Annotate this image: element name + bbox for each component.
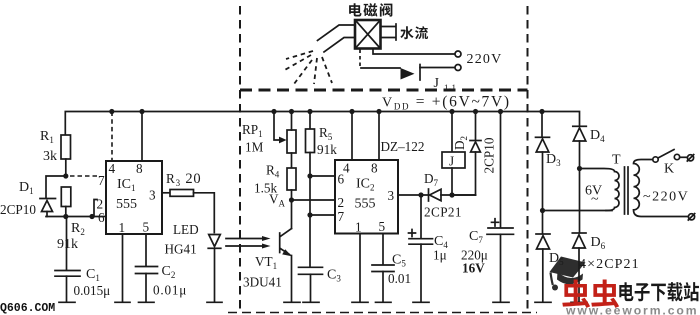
svg-text:91k: 91k <box>57 237 78 252</box>
svg-text:1-1: 1-1 <box>444 83 456 93</box>
wire rail to IC2 pin 4 <box>351 112 353 161</box>
op IC1 555 timer box <box>106 161 162 234</box>
svg-text:1: 1 <box>355 220 362 235</box>
svg-text:www.eeworm.com: www.eeworm.com <box>565 304 698 315</box>
ground C1 <box>59 301 75 303</box>
wire node to pin 7 <box>310 214 335 216</box>
svg-text:J: J <box>434 76 440 91</box>
node VA <box>289 197 294 202</box>
diode D6 <box>572 232 586 234</box>
watermark 电子下载站 <box>619 282 633 301</box>
terminal mains top <box>687 155 693 161</box>
svg-text:0.01: 0.01 <box>388 271 411 286</box>
svg-text:2CP21: 2CP21 <box>424 205 462 220</box>
svg-text:4: 4 <box>109 161 116 176</box>
resistor R5 <box>309 112 311 130</box>
capacitor C1 <box>66 217 68 271</box>
svg-text:J: J <box>449 154 454 169</box>
svg-text:3DU41: 3DU41 <box>243 275 282 290</box>
wire winding bottom <box>543 210 613 212</box>
node R1/R2/D1/pin7 <box>63 173 68 178</box>
transformer T primary 6V winding <box>580 169 620 211</box>
wire pin 3 to R3 <box>162 192 170 194</box>
wire D1/R2 to pins 2,6 <box>46 216 106 218</box>
svg-text:7: 7 <box>98 173 105 188</box>
svg-text:3: 3 <box>149 188 156 203</box>
diode D1 <box>40 198 56 200</box>
wire winding top down to D6 (crossover) <box>579 169 581 233</box>
svg-text:3k: 3k <box>43 149 57 164</box>
svg-text:0.015μ: 0.015μ <box>74 283 111 298</box>
transformer secondary winding <box>634 160 689 217</box>
svg-text:1: 1 <box>119 220 126 235</box>
switch K <box>653 157 658 162</box>
diode D5 <box>542 211 544 234</box>
svg-text:5: 5 <box>143 220 150 235</box>
svg-text:Q606.COM: Q606.COM <box>0 302 55 315</box>
dashed wire node to pin 7 <box>70 175 97 177</box>
capacitor C4 <box>420 195 422 238</box>
ground C3 <box>303 301 319 303</box>
LED HG41 <box>209 235 221 247</box>
svg-text:~220V: ~220V <box>643 190 689 205</box>
capacitor C2 <box>145 234 147 266</box>
svg-text:DZ–122: DZ–122 <box>381 139 425 154</box>
water spray dashes <box>283 51 332 84</box>
rail junction nodes <box>109 109 114 114</box>
svg-text:~: ~ <box>591 192 599 207</box>
diode D7 2CP21 <box>428 189 430 201</box>
terminal lower 220V <box>455 65 461 71</box>
node relay bottom <box>449 192 454 197</box>
svg-text:2CP10: 2CP10 <box>0 202 36 217</box>
wire node to pin 6 <box>310 175 335 177</box>
node pin7/C3 <box>307 212 312 217</box>
wire VA to IC2 pin 2 <box>292 199 336 201</box>
node winding bottom <box>540 208 545 213</box>
dashed wire rail to pin 4 <box>111 112 113 162</box>
wire rail to IC2 pin 8 <box>378 112 380 161</box>
phototransistor VT1 <box>291 200 293 229</box>
resistor R1 <box>61 135 71 159</box>
ground VT1 <box>284 301 300 303</box>
relay coil J <box>451 112 453 153</box>
svg-text:2CP10: 2CP10 <box>482 137 497 173</box>
wire rail to pin 8 <box>141 112 143 162</box>
wire R1 to node <box>65 159 67 176</box>
relay contact J1-1 wire <box>361 67 400 69</box>
svg-text:16V: 16V <box>462 261 485 276</box>
svg-text:K: K <box>664 162 674 177</box>
ground pin1 IC1 <box>115 301 130 303</box>
wire valve to upper 220V terminal <box>373 49 455 54</box>
node winding top <box>577 166 582 171</box>
ground IC2 pin1 <box>352 301 368 303</box>
label 电磁阀 (solenoid valve) <box>349 3 361 16</box>
wire contact to lower 220V terminal <box>420 67 455 69</box>
svg-text:91k: 91k <box>317 142 337 157</box>
svg-text:6: 6 <box>98 210 105 225</box>
label 水流 (water flow) <box>400 26 413 39</box>
relay contact J1-1 fixed bar <box>419 65 421 81</box>
solenoid valve body <box>355 20 381 49</box>
resistor R2 <box>61 187 71 207</box>
capacitor C3 <box>299 266 323 268</box>
wire node to C3 <box>309 215 311 267</box>
terminal upper 220V <box>455 51 461 57</box>
ground C7 <box>493 301 509 303</box>
svg-text:555: 555 <box>355 197 376 212</box>
capacitor C5 <box>382 234 384 265</box>
resistor R3 <box>170 190 194 197</box>
svg-text:1M: 1M <box>245 140 264 155</box>
svg-text:6: 6 <box>338 172 345 187</box>
outlet spout pipe <box>318 25 355 41</box>
svg-text:HG41: HG41 <box>165 242 197 257</box>
svg-text:555: 555 <box>116 197 137 212</box>
transformer core <box>625 167 629 214</box>
potentiometer RP1 wiper arm <box>274 112 279 141</box>
svg-text:1μ: 1μ <box>433 248 447 263</box>
svg-text:2: 2 <box>338 195 345 210</box>
wire pin 3 output <box>398 194 429 196</box>
dashed region separator right vertical <box>527 6 529 310</box>
diode D2 flyback <box>475 112 477 141</box>
ground LED <box>207 301 222 303</box>
diode D3 <box>541 112 543 138</box>
ground D6 <box>571 301 587 303</box>
svg-text:LED: LED <box>173 222 199 237</box>
wire R3 to LED <box>194 193 215 233</box>
ground C5 <box>376 301 392 303</box>
wire IC2 pin 1 to ground <box>359 234 361 302</box>
wire node down <box>309 176 311 215</box>
dashed valve-box bottom edge <box>240 89 528 92</box>
svg-text:3: 3 <box>388 188 395 203</box>
node pin3/C4 <box>418 192 423 197</box>
light coupling arrows LED to VT1 <box>226 238 262 240</box>
wire relay node to D2 <box>452 194 476 196</box>
svg-text:8: 8 <box>136 161 143 176</box>
dashed region separator left vertical <box>239 6 241 310</box>
diode D4 <box>573 125 587 127</box>
svg-text:0.01μ: 0.01μ <box>153 283 187 298</box>
water inlet pipe <box>381 27 396 38</box>
watermark graduation cap logo <box>550 257 586 278</box>
watermark 虫虫 red characters <box>562 280 590 308</box>
resistor R4 <box>287 168 296 190</box>
ground C4 <box>413 301 429 303</box>
node R5/pin6 <box>307 173 312 178</box>
wire VDD top rail <box>65 112 579 136</box>
wire pin 1 to ground <box>122 234 124 301</box>
svg-text:T: T <box>612 153 621 168</box>
ground D5 <box>535 301 551 303</box>
ground C2 <box>139 301 155 303</box>
op IC2 555 timer box <box>335 160 398 234</box>
svg-text:R3 20: R3 20 <box>166 171 201 188</box>
relay contact J1-1 arrow <box>401 68 415 80</box>
potentiometer RP1 body <box>287 130 296 153</box>
wire node to D1 cathode <box>46 176 66 198</box>
dashed bottom edge <box>228 312 537 314</box>
capacitor C7 <box>500 112 502 228</box>
dashed stub below valve <box>359 50 361 67</box>
svg-text:220V: 220V <box>467 52 503 67</box>
terminal mains bottom <box>688 214 694 220</box>
svg-text:4×2CP21: 4×2CP21 <box>579 257 640 272</box>
svg-text:8: 8 <box>371 161 378 176</box>
wire pin2 bracket <box>94 200 97 217</box>
svg-text:7: 7 <box>338 209 345 224</box>
svg-text:5: 5 <box>379 219 386 234</box>
